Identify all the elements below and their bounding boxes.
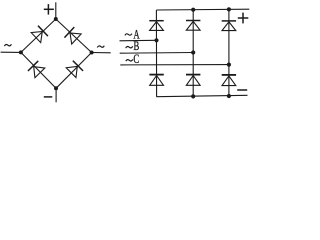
diode VD7 (leg3 upper): [222, 21, 236, 31]
wire edge B-L: [21, 52, 56, 88]
wire leg 1: [155, 10, 157, 97]
AC tilde left: [4, 44, 11, 46]
wire edge T-R: [56, 19, 92, 53]
wire edge B-R: [56, 53, 92, 89]
wire edge L-T: [21, 19, 56, 52]
wire bottom lead: [55, 88, 57, 102]
node phase A / leg1: [154, 38, 158, 42]
diode VD8 (leg1 lower): [149, 75, 163, 86]
wire left AC lead: [1, 51, 21, 53]
label phase C: [126, 59, 133, 61]
node bottom rail leg3: [227, 94, 231, 98]
node phase B / leg2: [191, 50, 195, 54]
wire phase A: [120, 39, 157, 42]
wire right AC lead: [92, 52, 111, 54]
wire phase C: [120, 64, 229, 66]
wire bottom rail: [156, 95, 247, 96]
wire top lead: [55, 2, 57, 19]
minus terminal (left bridge): [44, 96, 53, 98]
node top: [54, 17, 58, 21]
plus terminal (left bridge): [44, 4, 54, 15]
AC tilde right: [97, 46, 104, 48]
wire leg 3: [228, 9, 230, 96]
diode VD4 (bottom-right edge): [66, 61, 83, 78]
node bottom rail leg2: [191, 94, 195, 98]
wire leg 2: [192, 10, 194, 97]
diode VD10 (leg3 lower): [222, 75, 236, 86]
diode VD6 (leg2 upper): [186, 21, 200, 31]
svg-text:B: B: [134, 39, 140, 53]
diode VD9 (leg2 lower): [186, 75, 200, 86]
plus terminal (right bridge): [238, 13, 249, 24]
diode VD2 (top-right edge): [64, 27, 81, 44]
node top rail leg3: [227, 7, 231, 11]
label phase A: [125, 34, 132, 36]
node left: [19, 50, 23, 54]
wire top rail: [156, 8, 249, 11]
svg-text:C: C: [133, 53, 139, 67]
node bottom: [54, 86, 58, 90]
node top rail leg2: [191, 8, 195, 12]
node right: [90, 51, 94, 55]
wire phase B: [120, 52, 194, 55]
diode VD1 (left-top edge): [31, 26, 48, 43]
label phase B: [126, 46, 133, 48]
diode VD3 (bottom-left edge): [28, 61, 45, 78]
diode VD5 (leg1 upper): [149, 21, 163, 31]
minus terminal (right bridge): [237, 89, 247, 91]
node phase C / leg3: [227, 63, 231, 67]
